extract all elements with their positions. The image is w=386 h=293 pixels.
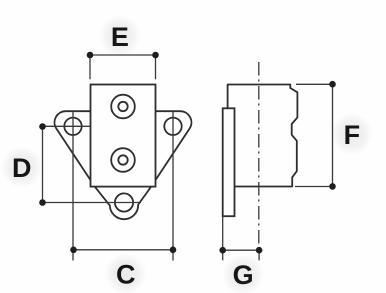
svg-text:G: G xyxy=(233,260,254,290)
svg-text:E: E xyxy=(111,22,129,52)
svg-text:F: F xyxy=(344,120,361,150)
svg-text:C: C xyxy=(116,260,136,290)
svg-text:D: D xyxy=(12,153,32,183)
